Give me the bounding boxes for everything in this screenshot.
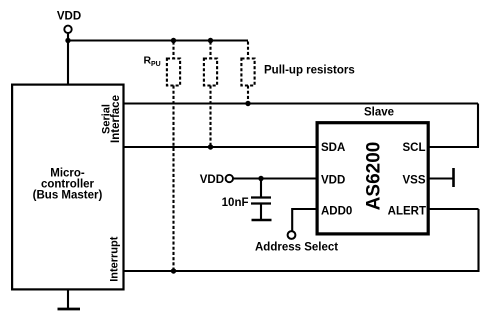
svg-text:VDD: VDD — [200, 174, 224, 186]
resistor R_PU 2 (pull-up, dashed) — [204, 42, 217, 148]
capacitor C1 10nF — [251, 179, 271, 220]
ground below capacitor — [252, 219, 272, 222]
wire SCL line from microcontroller to top-right — [125, 102, 479, 104]
svg-text:PU: PU — [151, 61, 161, 68]
svg-text:Interrupt: Interrupt — [108, 236, 120, 282]
svg-text:AS6200: AS6200 — [363, 142, 384, 211]
junction dot R2 on SDA line — [208, 144, 213, 149]
junction dot R1 on interrupt line — [171, 268, 176, 273]
junction dot rail at R2 — [208, 38, 213, 43]
ground below microcontroller — [58, 290, 81, 309]
junction dot capacitor tap — [258, 176, 263, 181]
junction dot VDD rail at drop — [65, 38, 70, 43]
svg-text:10nF: 10nF — [222, 197, 249, 209]
wire SCL into pin — [430, 146, 480, 148]
svg-text:SCL: SCL — [403, 142, 426, 154]
wire ADD0 to address select — [292, 209, 315, 231]
wire ALERT vertical to interrupt line — [477, 209, 479, 272]
wire SDA line from microcontroller to AS6200 — [125, 146, 316, 148]
resistor R_PU 3 (pull-up, dashed) — [241, 42, 254, 104]
svg-text:Address Select: Address Select — [255, 241, 338, 253]
junction dot R3 on SCL line — [245, 101, 250, 106]
svg-text:SDA: SDA — [321, 142, 345, 154]
terminal circle Address Select — [288, 231, 296, 239]
wire VSS to termination — [430, 177, 454, 179]
svg-text:ALERT: ALERT — [388, 206, 426, 218]
wire ALERT horizontal — [430, 208, 479, 210]
svg-text:VDD: VDD — [321, 174, 345, 186]
label Micro-controller (Bus Master) — [33, 167, 103, 201]
svg-text:Slave: Slave — [364, 106, 394, 118]
svg-text:(Bus Master): (Bus Master) — [33, 189, 103, 201]
terminal circle VDD top — [64, 26, 71, 33]
svg-text:Pull-up resistors: Pull-up resistors — [264, 65, 355, 77]
svg-text:VSS: VSS — [402, 174, 425, 186]
label RPU — [144, 55, 161, 69]
label Serial Interface (rotated) — [100, 95, 122, 143]
terminal circle VDD mid — [226, 175, 233, 182]
ground bar VSS termination — [452, 168, 455, 187]
svg-text:VDD: VDD — [57, 11, 81, 23]
IC AS6200 box — [317, 123, 428, 234]
wire interrupt line from microcontroller — [125, 270, 479, 272]
wire VDD rail horizontal — [68, 39, 248, 41]
resistor R_PU 1 (pull-up, dashed) — [167, 42, 180, 272]
wire SCL vertical right side — [477, 104, 479, 148]
wire VDD to AS6200 VDD pin — [233, 177, 315, 179]
microcontroller U1 (Bus Master) box — [12, 85, 123, 290]
svg-text:Interface: Interface — [110, 95, 122, 143]
wire VDD vertical drop to microcontroller — [67, 33, 69, 85]
junction dot rail at R1 — [171, 38, 176, 43]
svg-text:ADD0: ADD0 — [321, 206, 352, 218]
